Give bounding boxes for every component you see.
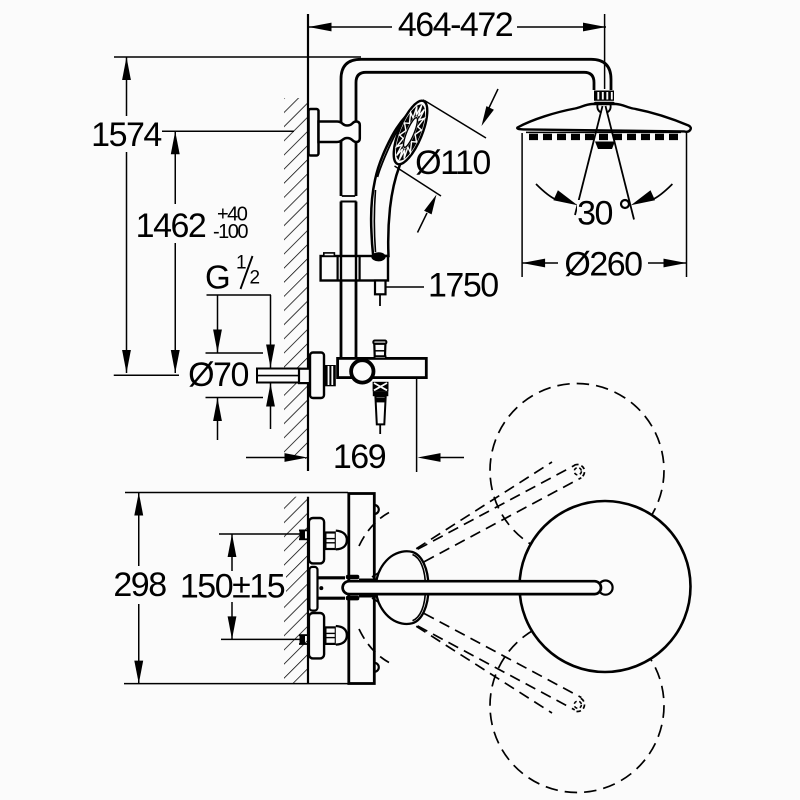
bottom valve dome (plan): [336, 626, 347, 645]
supply union block: [299, 369, 311, 383]
Ø260 dim line left: [522, 262, 558, 264]
outlet connector bar top: [318, 576, 346, 579]
svg-text:150±15: 150±15: [180, 568, 285, 606]
hose outlet square: [373, 382, 389, 392]
supply nipple mid line: [257, 375, 300, 377]
30deg line right: [606, 106, 635, 220]
wall face line (lower view): [307, 497, 309, 684]
dim 150 arrow up: [228, 534, 237, 557]
bottom union nut (plan): [325, 627, 335, 644]
ref line 1462 upper reference: [162, 130, 294, 132]
30deg arc right: [651, 184, 672, 200]
bottom supply pipe in wall: [299, 634, 309, 636]
top supply escutcheon (plan): [309, 518, 324, 563]
wall face line (upper view): [307, 14, 309, 471]
diverter knob waist line: [375, 350, 386, 352]
dim 298 arrow up: [134, 493, 143, 516]
arm tube (plan): [343, 581, 601, 594]
thermostat body: [338, 358, 427, 377]
gasket top: [346, 575, 360, 579]
svg-text:298: 298: [113, 566, 166, 604]
arm nozzle tip circle: [598, 581, 612, 595]
arm bell escutcheon (plan): [376, 551, 429, 624]
dim Ø70 line lower: [217, 398, 219, 440]
150 extension line bottom: [221, 638, 303, 640]
298 extension line top: [125, 492, 348, 494]
dim 298 line upper: [138, 493, 140, 567]
dashed arm upper edge a: [372, 462, 552, 577]
svg-text:464-472: 464-472: [398, 6, 513, 44]
arm bell inner rim line: [413, 555, 426, 621]
30deg arc left: [536, 184, 557, 200]
Ø110 arrow upper shaft: [487, 89, 498, 112]
body screw boss bottom: [374, 663, 379, 672]
riser pipe inner bend and arm inner line: [356, 72, 594, 196]
hose outlet nut: [373, 391, 389, 396]
dim 298 arrow down: [134, 661, 143, 684]
head shower nozzle band (dashed): [529, 134, 679, 140]
dim 464-472 arrow left: [309, 23, 332, 32]
middle outlet escutcheon (plan): [309, 567, 317, 611]
svg-text:1750: 1750: [428, 267, 498, 305]
head shower dome profile: [517, 104, 691, 132]
Ø110 arrow lower: [424, 195, 436, 215]
30deg arc left arrow: [553, 190, 577, 205]
svg-text:2: 2: [250, 268, 260, 289]
bell waist edge bottom: [359, 595, 377, 598]
dim 169 arrow left: [285, 453, 308, 462]
Ø260 extension line left: [521, 133, 523, 277]
30deg arc right arrow: [631, 190, 655, 205]
169 extension line right: [416, 378, 418, 472]
label 150±15: [178, 571, 286, 602]
svg-text:1: 1: [236, 253, 246, 274]
dim G1/2 arrow up: [266, 384, 275, 407]
Ø110 arrow upper: [482, 106, 494, 126]
dim 169 left shaft: [246, 457, 286, 459]
dim 1574 line lower: [126, 152, 128, 373]
hand shower face ring notches: [397, 105, 425, 160]
dim 150 line upper: [231, 534, 233, 571]
hand shower body outline: [371, 101, 426, 256]
hand shower face ellipse: [387, 97, 434, 169]
dim 150 arrow down: [228, 616, 237, 639]
top supply pipe in wall: [299, 529, 309, 531]
svg-text:1462: 1462: [136, 207, 206, 245]
Ø260 extension line right: [686, 133, 688, 277]
dim 1574 arrow up: [122, 57, 131, 80]
wall bracket plate: [309, 109, 319, 156]
hand shower back shell line: [378, 104, 421, 177]
riser pipe left edge lower part: [340, 202, 343, 359]
Ø260 arrow left: [522, 259, 545, 268]
head shower mount trapezoid: [591, 102, 618, 105]
dim 1462 arrow down: [171, 350, 180, 373]
dashed arm lower edge b: [387, 609, 575, 710]
diverter knob body: [374, 344, 385, 357]
riser pipe outer bend and arm outer line: [341, 59, 611, 196]
label 1574: [90, 118, 163, 152]
svg-text:Ø70: Ø70: [188, 356, 248, 394]
dim 1462 line lower: [174, 243, 176, 373]
svg-text:-100: -100: [213, 221, 248, 243]
dim G1/2 line lower: [270, 384, 272, 430]
dim 1574 line upper: [126, 57, 128, 116]
G 1/2 bracket line: [207, 294, 272, 296]
holder left tab: [324, 253, 335, 256]
dashed arm upper edge c: [393, 478, 581, 579]
dim G1/2 arrow down: [266, 345, 275, 368]
bottom supply escutcheon (plan): [309, 613, 324, 658]
dashed circle upper (swivel position): [490, 384, 664, 558]
Ø110 extension line upper: [425, 101, 487, 139]
top union nut (plan): [325, 533, 335, 550]
Ø110 extension line lower: [395, 166, 442, 196]
riser pipe through holder left: [340, 256, 342, 281]
svg-text:G: G: [205, 259, 229, 296]
hand shower face inner ellipse: [401, 116, 420, 148]
svg-text:Ø260: Ø260: [564, 246, 642, 284]
dashed arm upper edge b: [387, 465, 575, 566]
dim 1574 arrow down: [122, 350, 131, 373]
head shower ball socket right: [607, 105, 611, 113]
dim Ø70 line upper: [217, 295, 219, 353]
label Ø70: [186, 359, 251, 391]
riser pipe through holder right: [355, 256, 357, 281]
label Ø110: [417, 149, 489, 177]
riser pipe right edge lower part: [355, 202, 358, 359]
label degree symbol: [621, 200, 629, 208]
hand shower holder block: [321, 256, 388, 281]
dashed bell upper arc: [359, 513, 389, 547]
dim 298 line lower: [138, 604, 140, 684]
dashed arm lower edge a: [372, 598, 552, 713]
1750 leader line: [386, 286, 424, 288]
union nut: [325, 365, 336, 386]
hose outlet tip line: [379, 424, 381, 434]
150 extension line top: [219, 533, 303, 535]
hose connector below holder: [375, 281, 386, 295]
svg-text:30: 30: [577, 195, 612, 233]
head shower ball socket left: [597, 105, 601, 113]
dim 1462 arrow up: [171, 131, 180, 154]
wall hatching (lower view): [284, 497, 308, 684]
dim 1462 line upper: [174, 131, 176, 204]
label 30: [577, 200, 613, 227]
head shower circle (plan): [520, 501, 691, 672]
dim Ø70 arrow down: [213, 330, 222, 353]
Ø110 arrow lower shaft: [418, 213, 428, 233]
dashed circle lower (swivel position): [490, 619, 664, 793]
hand shower face serrated ring: [396, 105, 425, 161]
dim Ø70 arrow up: [213, 398, 222, 421]
ref line supply centre: [114, 374, 179, 376]
diverter knob base: [375, 356, 386, 358]
ref line top (1574 upper reference): [114, 56, 361, 58]
dim 464-472 line right segment: [517, 26, 606, 28]
middle outlet screw dot: [319, 586, 323, 590]
outlet connector bar bottom: [318, 597, 346, 600]
hand shower handle inner line: [374, 190, 375, 252]
head shower central nozzle: [595, 142, 615, 150]
label 1462: [137, 206, 206, 243]
dim 464-472 extension line right: [604, 14, 606, 89]
svg-text:169: 169: [333, 438, 386, 476]
298 extension line bottom: [124, 683, 348, 685]
riser joint ring: [351, 360, 373, 382]
label G 1/2 slash: [241, 256, 253, 289]
Ø260 dim line right: [648, 262, 687, 264]
label 298: [113, 570, 166, 600]
Ø260 arrow right: [664, 259, 687, 268]
riser pipe joint tick upper: [342, 195, 355, 197]
30deg line left: [575, 106, 603, 215]
hose stub line: [379, 294, 381, 306]
dim 169 arrow right: [418, 453, 441, 462]
svg-text:Ø110: Ø110: [415, 144, 490, 182]
supply nipple: [257, 369, 300, 383]
riser pipe joint tick lower: [341, 201, 357, 203]
label Ø260: [560, 247, 647, 281]
handle end in holder: [371, 252, 385, 261]
top valve dome (plan): [336, 531, 347, 550]
bell waist edge top: [359, 578, 377, 581]
hose outlet tube band: [376, 398, 386, 403]
holder division line right: [359, 256, 361, 281]
gasket bottom: [346, 596, 360, 601]
dashed bell lower arc: [359, 629, 389, 663]
diverter knob top disc: [373, 341, 386, 344]
dashed arm lower edge c: [393, 597, 581, 698]
dim 150 line lower: [231, 602, 233, 639]
wall bracket arm and pipe collar: [319, 122, 360, 143]
head shower brim lower line: [526, 131, 681, 133]
dashed cap lower: [574, 698, 584, 711]
holder division line left: [337, 256, 339, 281]
wall hatching (upper view): [284, 98, 308, 459]
label 464-472: [393, 12, 517, 38]
Ø70 extension line bottom: [206, 397, 264, 399]
body screw boss top: [374, 505, 379, 514]
dim G1/2 line upper: [270, 295, 272, 368]
dim 169 right shaft: [440, 457, 465, 459]
thermostat body (plan): [349, 494, 375, 684]
dim 464-472 arrow right: [583, 23, 606, 32]
head shower collar (ridged nut): [594, 91, 614, 101]
svg-text:1574: 1574: [91, 116, 161, 154]
Ø70 extension line top: [206, 352, 264, 354]
escutcheon (Ø70 flange): [310, 353, 324, 399]
dim 464-472 line left segment: [309, 26, 393, 28]
hose outlet tube: [375, 396, 385, 424]
dashed cap upper: [574, 464, 584, 477]
